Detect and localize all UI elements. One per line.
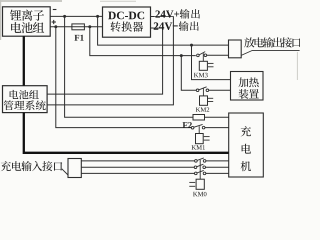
wire battery- to DC-DC: [50, 15, 102, 17]
contactor KM0 coil: [189, 160, 206, 196]
heater box 加热装置: [231, 72, 264, 101]
fuse F2: [183, 115, 205, 128]
wire 24V- to BMS: [47, 28, 163, 94]
contactor KM3 coil: [194, 53, 214, 77]
wire + drop to KM1 bus: [56, 27, 191, 128]
wire bus B tap down to KM2: [181, 56, 196, 91]
wire 24V+ to BMS: [47, 17, 173, 105]
discharge output port box: [229, 40, 242, 58]
battery minus terminal label: [53, 9, 57, 11]
label 24V- output: [153, 21, 199, 31]
contactor KM2 contact: [196, 87, 230, 92]
scan artifact left edge: [0, 0, 2, 40]
scan artifact right edge: [296, 52, 298, 80]
contactor KM2 coil: [196, 88, 213, 112]
contactor KM0 pole2: [194, 164, 229, 168]
contactor KM0 pole3: [195, 170, 229, 174]
label 充电输入接口 with leader: [1, 161, 68, 175]
contactor KM1 coil: [192, 126, 210, 149]
wire F2 to charger: [205, 116, 229, 118]
wire + drop to bus B: [90, 27, 196, 56]
fuse F1: [72, 24, 85, 41]
DC-DC converter box U1: [103, 7, 151, 37]
wire - drop to bus A: [98, 16, 229, 45]
contactor KM1 contact: [191, 124, 228, 129]
charge input port box: [68, 159, 81, 178]
contactor KM0 pole1: [195, 158, 229, 162]
scan artifact top edge: [0, 0, 136, 2]
thick link battery to BMS: [23, 36, 25, 85]
junction dot + at x90: [88, 25, 91, 28]
wire charge input 1: [81, 160, 195, 162]
junction dot bus A tap: [190, 44, 193, 47]
junction dot + at x56: [54, 25, 57, 28]
battery pack box 锂离子电池组: [3, 7, 51, 36]
junction dot bus B tap: [180, 54, 183, 57]
junction dot - at x64: [63, 15, 66, 18]
junction dot - at x97: [96, 15, 99, 18]
contactor KM3 contact: [197, 52, 229, 57]
wire charge input 3: [81, 172, 195, 174]
wire battery+ to DC-DC via F1: [50, 26, 102, 28]
wire - drop to F2 bus: [65, 16, 193, 117]
wire charge input 2: [81, 166, 194, 168]
thick link BMS to charger: [24, 113, 229, 153]
label 24V+ output: [154, 9, 200, 19]
wire bus A to heater top: [192, 45, 231, 80]
charger box 充电机: [229, 113, 264, 177]
battery plus terminal label: [52, 20, 56, 24]
label 放电输出接口 with leader: [241, 37, 301, 55]
BMS box 电池组管理系统: [3, 86, 48, 113]
